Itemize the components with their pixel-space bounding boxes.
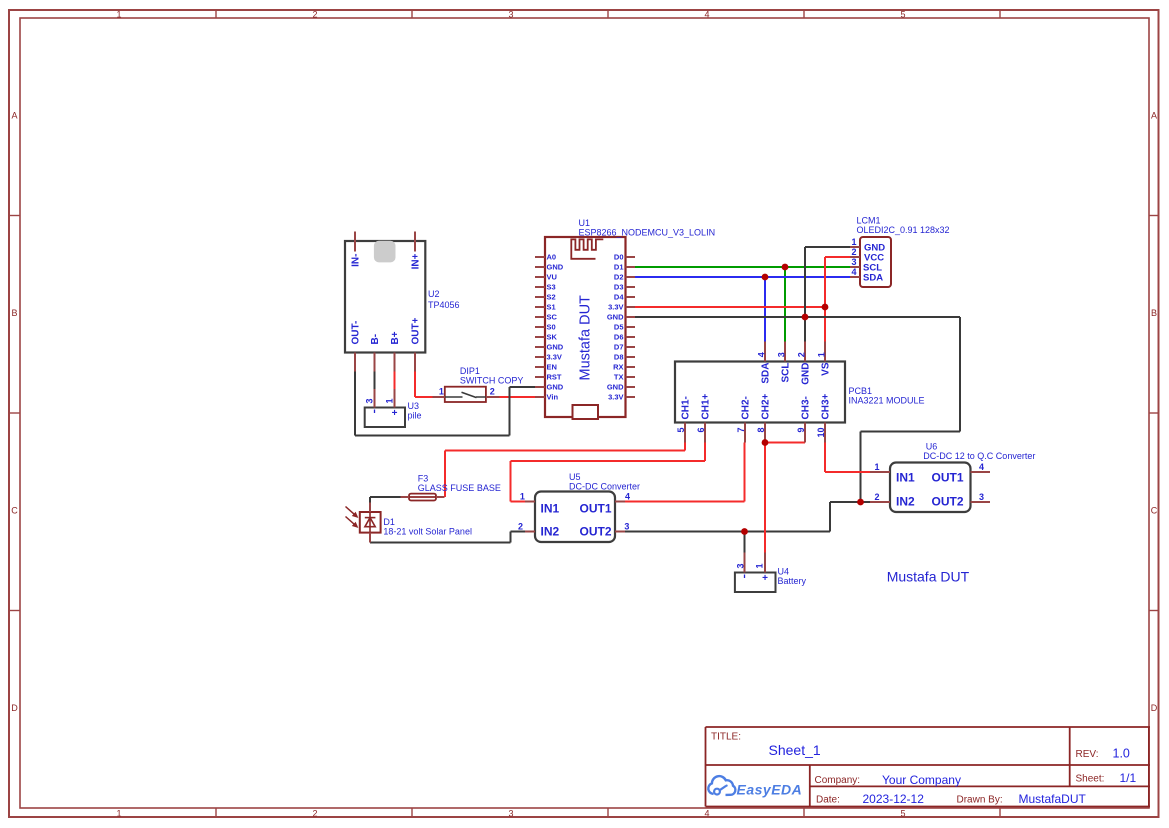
svg-text:7: 7 — [736, 428, 746, 433]
svg-text:9: 9 — [796, 428, 806, 433]
EasyEDA logo cloud icon — [708, 776, 735, 795]
svg-text:D8: D8 — [614, 353, 624, 362]
switch DIP1 SWITCH COPY body — [445, 387, 486, 402]
U1 left pins — [535, 256, 545, 258]
svg-text:DC-DC Converter: DC-DC Converter — [569, 482, 640, 492]
ruler ticks top — [215, 10, 217, 18]
svg-text:U3: U3 — [408, 401, 420, 411]
svg-text:2: 2 — [851, 247, 856, 257]
U1 usb connector rectangle — [573, 405, 599, 419]
svg-text:8: 8 — [756, 428, 766, 433]
svg-text:EN: EN — [547, 363, 557, 372]
svg-text:MustafaDUT: MustafaDUT — [1019, 792, 1087, 806]
PCB1 bottom pins — [684, 423, 686, 443]
svg-text:PCB1: PCB1 — [849, 386, 873, 396]
svg-text:DIP1: DIP1 — [460, 366, 480, 376]
svg-text:IN-: IN- — [350, 254, 361, 267]
ruler ticks left — [9, 215, 20, 217]
svg-text:1: 1 — [520, 492, 525, 502]
svg-text:GND: GND — [547, 383, 564, 392]
svg-text:D1: D1 — [614, 263, 624, 272]
display LCM1 OLEDI2C body — [860, 237, 891, 287]
U1 antenna meander — [571, 239, 603, 258]
wire net 3V3 red from U1.3.3V — [635, 306, 825, 308]
svg-text:OUT-: OUT- — [350, 321, 361, 345]
svg-text:OUT+: OUT+ — [410, 317, 421, 344]
wire U5.OUT1 to PCB1.CH2- red — [625, 501, 745, 503]
svg-text:SCL: SCL — [781, 363, 792, 383]
svg-text:2: 2 — [518, 522, 523, 532]
svg-text:OUT2: OUT2 — [579, 525, 611, 539]
svg-text:3: 3 — [979, 492, 984, 502]
svg-text:F3: F3 — [418, 474, 429, 484]
svg-text:3: 3 — [364, 398, 374, 403]
svg-text:Sheet:: Sheet: — [1076, 774, 1105, 785]
U5 pins — [525, 501, 535, 503]
svg-text:U1: U1 — [579, 218, 591, 228]
svg-text:VU: VU — [547, 273, 557, 282]
U2 bottom pins — [354, 353, 356, 372]
svg-text:2: 2 — [312, 809, 317, 819]
svg-text:1: 1 — [874, 462, 879, 472]
svg-text:GND: GND — [607, 313, 624, 322]
svg-text:GND: GND — [607, 383, 624, 392]
wire PCB1.CH1+ to U5.IN1 red — [704, 443, 706, 462]
svg-text:CH1-: CH1- — [681, 396, 692, 419]
svg-text:C: C — [11, 506, 18, 516]
svg-text:U6: U6 — [926, 442, 938, 452]
wire net GND black riser to LCM1.GND and PCB1.GND — [804, 247, 806, 342]
svg-text:S1: S1 — [547, 303, 556, 312]
svg-text:SDA: SDA — [761, 363, 772, 384]
DIP1 switch blade — [445, 392, 486, 397]
svg-text:GND: GND — [801, 363, 812, 385]
svg-text:OUT1: OUT1 — [579, 502, 611, 516]
wire net GND black from U1.GND — [635, 316, 960, 318]
wire PCB1.CH1- to F3 red — [684, 443, 686, 451]
LCM1 pins 1-4 — [850, 246, 860, 248]
svg-text:SWITCH COPY: SWITCH COPY — [460, 376, 524, 386]
converter U6 DC-DC 12 to QC body — [890, 463, 971, 513]
wire net GND black right loop to U6.IN2 — [959, 317, 961, 432]
svg-text:2: 2 — [874, 492, 879, 502]
svg-text:+: + — [762, 573, 768, 584]
svg-text:D5: D5 — [614, 323, 624, 332]
U3 pins — [374, 389, 376, 408]
svg-text:CH2+: CH2+ — [761, 393, 772, 419]
svg-text:2: 2 — [490, 387, 495, 397]
svg-text:Mustafa DUT: Mustafa DUT — [887, 569, 970, 585]
svg-text:5: 5 — [900, 809, 905, 819]
svg-text:U5: U5 — [569, 472, 581, 482]
svg-text:INA3221 MODULE: INA3221 MODULE — [849, 396, 925, 406]
svg-text:B+: B+ — [390, 331, 401, 344]
svg-text:3.3V: 3.3V — [608, 393, 623, 402]
svg-text:CH2-: CH2- — [741, 396, 752, 419]
wire net SCL green from U1.D1 to LCM1.SCL — [635, 266, 850, 268]
svg-text:18-21 volt Solar Panel: 18-21 volt Solar Panel — [383, 526, 472, 536]
svg-text:4: 4 — [704, 10, 709, 20]
svg-text:Your Company: Your Company — [882, 773, 961, 787]
svg-text:TP4056: TP4056 — [428, 300, 460, 310]
svg-text:4: 4 — [704, 809, 709, 819]
svg-text:GND: GND — [547, 343, 564, 352]
module PCB1 INA3221 body — [675, 362, 845, 423]
svg-text:D: D — [11, 703, 18, 713]
svg-text:A: A — [11, 111, 17, 121]
svg-text:Vin: Vin — [547, 393, 559, 402]
junction node SCL — [782, 264, 789, 271]
svg-text:6: 6 — [696, 428, 706, 433]
svg-text:C: C — [1151, 506, 1158, 516]
battery U4 body — [735, 573, 776, 593]
svg-text:CH3-: CH3- — [801, 396, 812, 419]
mcu U1 ESP8266_NODEMCU_V3_LOLIN body — [545, 237, 626, 417]
svg-text:IN1: IN1 — [896, 471, 915, 485]
svg-text:IN1: IN1 — [541, 502, 560, 516]
svg-text:1: 1 — [384, 398, 394, 403]
svg-text:RX: RX — [613, 363, 623, 372]
svg-text:Drawn By:: Drawn By: — [957, 795, 1003, 806]
U1 right pins — [626, 256, 636, 258]
svg-text:OUT1: OUT1 — [931, 471, 963, 485]
svg-text:D3: D3 — [614, 283, 624, 292]
svg-text:1: 1 — [116, 809, 121, 819]
U4 pins — [744, 553, 746, 573]
svg-text:IN2: IN2 — [896, 495, 915, 509]
wire net SCL green drop to PCB1.SCL — [784, 267, 786, 342]
wire net 3V3 red riser to LCM1.VCC and PCB1.VS — [824, 257, 826, 342]
svg-text:GND: GND — [547, 263, 564, 272]
svg-text:3: 3 — [508, 809, 513, 819]
svg-text:EasyEDA: EasyEDA — [737, 782, 803, 798]
svg-text:S0: S0 — [547, 323, 556, 332]
junction node U6 IN2 — [857, 499, 864, 506]
svg-text:OLEDI2C_0.91 128x32: OLEDI2C_0.91 128x32 — [857, 225, 950, 235]
svg-text:U4: U4 — [778, 567, 790, 577]
wire net SDA blue drop to PCB1.SDA — [764, 277, 766, 342]
svg-text:3: 3 — [735, 563, 745, 568]
svg-text:Battery: Battery — [778, 576, 807, 586]
svg-text:2023-12-12: 2023-12-12 — [863, 792, 925, 806]
svg-text:VS: VS — [821, 362, 832, 376]
svg-text:Company:: Company: — [815, 775, 861, 786]
wire D1 bottom to U5.IN2 black — [370, 542, 511, 544]
svg-text:B: B — [1151, 308, 1157, 318]
svg-text:TX: TX — [614, 373, 624, 382]
wire U2.B+ to U3.1 red — [394, 372, 396, 390]
DIP1 pins — [433, 396, 445, 398]
D1 pins — [369, 503, 371, 513]
wire PCB1.CH3+ to U6.IN1 red — [824, 443, 826, 473]
svg-text:D7: D7 — [614, 343, 624, 352]
svg-text:1: 1 — [817, 352, 827, 357]
svg-text:IN+: IN+ — [410, 253, 421, 269]
F3 pins — [401, 496, 410, 498]
svg-text:D: D — [1151, 703, 1158, 713]
wire D1 top to F3 black — [369, 497, 371, 503]
svg-text:5: 5 — [676, 428, 686, 433]
svg-text:10: 10 — [816, 428, 826, 438]
svg-text:1: 1 — [116, 10, 121, 20]
wire U2.OUT- to U1.GND black — [354, 372, 356, 436]
svg-text:GLASS FUSE BASE: GLASS FUSE BASE — [418, 483, 501, 493]
ruler ticks right — [1149, 215, 1159, 217]
svg-text:Date:: Date: — [816, 795, 840, 806]
svg-text:4: 4 — [851, 267, 856, 277]
svg-text:3: 3 — [851, 257, 856, 267]
svg-text:CH3+: CH3+ — [821, 393, 832, 419]
svg-text:OUT2: OUT2 — [931, 495, 963, 509]
svg-text:4: 4 — [625, 492, 630, 502]
svg-text:5: 5 — [900, 10, 905, 20]
wire U2.OUT+ to DIP1.1 red — [414, 372, 416, 398]
svg-text:SK: SK — [547, 333, 558, 342]
svg-text:pile: pile — [408, 411, 422, 421]
title block outline — [705, 727, 707, 807]
svg-text:1.0: 1.0 — [1113, 747, 1130, 761]
svg-text:B: B — [11, 308, 17, 318]
svg-text:REV:: REV: — [1076, 749, 1099, 760]
junction node SDA — [762, 274, 769, 281]
svg-text:ESP8266_NODEMCU_V3_LOLIN: ESP8266_NODEMCU_V3_LOLIN — [579, 228, 716, 238]
junction node 3V3 — [822, 304, 829, 311]
wire U5.OUT2 to U6.IN2 black — [625, 531, 830, 533]
svg-text:2: 2 — [797, 352, 807, 357]
battery U3 pile body — [365, 408, 405, 428]
svg-text:4: 4 — [979, 462, 984, 472]
svg-text:+: + — [392, 408, 398, 419]
D1 light arrow 1 — [346, 507, 357, 516]
wire DIP1.2 to U1.Vin red — [500, 396, 536, 398]
svg-text:TITLE:: TITLE: — [711, 732, 741, 743]
svg-text:SC: SC — [547, 313, 558, 322]
svg-text:4: 4 — [757, 352, 767, 357]
svg-text:SDA: SDA — [863, 273, 883, 284]
U3 polarity marks — [374, 410, 376, 414]
U2 top pins — [354, 232, 356, 252]
wire U2.B- to U3.3 black — [374, 372, 376, 390]
svg-text:A: A — [1151, 111, 1157, 121]
svg-text:3.3V: 3.3V — [547, 353, 562, 362]
diode D1 solar panel body — [360, 512, 381, 533]
svg-text:3.3V: 3.3V — [608, 303, 623, 312]
svg-text:Mustafa DUT: Mustafa DUT — [578, 295, 594, 381]
svg-text:1: 1 — [851, 237, 856, 247]
svg-text:D4: D4 — [614, 293, 624, 302]
svg-text:Sheet_1: Sheet_1 — [769, 742, 821, 758]
svg-text:B-: B- — [370, 334, 381, 345]
svg-text:3: 3 — [624, 522, 629, 532]
U6 pins — [870, 471, 890, 473]
wire net SDA blue from U1.D2 to LCM1.SDA — [635, 276, 850, 278]
svg-text:DC-DC 12 to Q.C Converter: DC-DC 12 to Q.C Converter — [923, 451, 1035, 461]
fuse F3 GLASS FUSE BASE body — [409, 494, 436, 501]
svg-text:RST: RST — [547, 373, 562, 382]
junction node GND — [802, 314, 809, 321]
wire PCB1.CH2+ and CH3- to U4.pin1 red — [764, 443, 766, 553]
svg-text:D6: D6 — [614, 333, 624, 342]
U4 polarity marks — [744, 575, 746, 579]
svg-text:1: 1 — [754, 563, 764, 568]
svg-text:CH1+: CH1+ — [701, 393, 712, 419]
D1 photodiode symbol — [369, 512, 371, 533]
junction node U4 minus — [741, 528, 748, 535]
svg-text:1/1: 1/1 — [1120, 771, 1137, 785]
U2 usb blob — [374, 241, 396, 263]
converter U5 DC-DC body — [535, 492, 615, 543]
svg-text:3: 3 — [508, 10, 513, 20]
junction node CH2+/CH3- — [762, 439, 769, 446]
svg-text:U2: U2 — [428, 289, 440, 299]
svg-text:1: 1 — [439, 387, 444, 397]
svg-text:A0: A0 — [547, 253, 557, 262]
svg-text:S3: S3 — [547, 283, 556, 292]
wire U4.pin3 drop black — [744, 532, 746, 553]
charger U2 TP4056 body — [345, 241, 425, 353]
PCB1 top pins — [764, 342, 766, 362]
svg-text:IN2: IN2 — [541, 525, 560, 539]
svg-text:3: 3 — [777, 352, 787, 357]
svg-text:D0: D0 — [614, 253, 624, 262]
svg-text:D2: D2 — [614, 273, 624, 282]
ruler ticks bottom — [215, 808, 217, 817]
svg-text:LCM1: LCM1 — [857, 216, 881, 226]
D1 light arrow 2 — [346, 517, 357, 526]
svg-text:2: 2 — [312, 10, 317, 20]
svg-text:S2: S2 — [547, 293, 556, 302]
